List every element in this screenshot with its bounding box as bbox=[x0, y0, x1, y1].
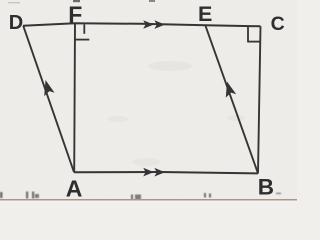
top edge cut-off smudge above E bbox=[149, 0, 155, 2]
right angle mark at F bbox=[75, 25, 89, 40]
line AB (bottom side) bbox=[74, 172, 258, 173]
top edge cut-off smudge above F bbox=[73, 0, 80, 2]
svg-text:F: F bbox=[68, 2, 82, 28]
segment DA (left slanted side) bbox=[23, 26, 74, 173]
svg-text:A: A bbox=[66, 175, 83, 201]
single arrowhead on DA pointing toward D bbox=[44, 80, 54, 96]
right angle mark at C bbox=[247, 27, 260, 42]
svg-text:C: C bbox=[271, 13, 285, 35]
bottom page-edge line bbox=[0, 199, 297, 201]
paper background bbox=[0, 0, 297, 202]
svg-text:B: B bbox=[258, 175, 274, 200]
svg-text:D: D bbox=[9, 12, 23, 34]
segment CB (right side, perpendicular) bbox=[258, 26, 261, 173]
svg-text:E: E bbox=[198, 2, 212, 26]
single arrowhead on EB pointing toward E bbox=[226, 82, 236, 98]
cut-off caption text fragments at bottom bbox=[0, 192, 281, 200]
top edge faint dash left bbox=[8, 2, 20, 3]
double arrowhead on DC pointing right bbox=[143, 20, 165, 29]
segment EB (slanted cevian from E to B) bbox=[206, 26, 259, 174]
faint ghost smudges bbox=[108, 61, 245, 166]
double arrowhead on AB pointing right bbox=[143, 168, 165, 177]
segment FA (perpendicular from F to A) bbox=[73, 23, 76, 172]
line DC (top side through F and E) bbox=[23, 23, 261, 26]
